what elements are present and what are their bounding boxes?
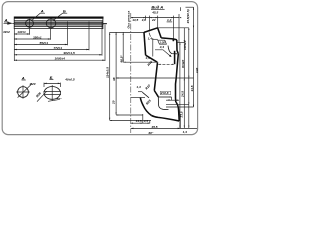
dim row 130 — [14, 33, 29, 35]
top ref tick y7 — [186, 6, 194, 8]
svg-text:350±1: 350±1 — [33, 35, 42, 39]
beam inner line 1b — [14, 21, 103, 23]
head outer face — [177, 40, 179, 54]
svg-text:3,5: 3,5 — [144, 119, 149, 123]
foot left diagonal — [142, 92, 149, 98]
detail A circle — [18, 87, 29, 98]
svg-text:24,5: 24,5 — [181, 91, 185, 98]
view arrow A underline — [4, 21, 9, 23]
svg-text:1000±4: 1000±4 — [55, 57, 66, 61]
foot bottom edge — [152, 116, 180, 122]
svg-text:1,4: 1,4 — [136, 85, 141, 89]
ext x149.5 to top edge — [149, 20, 151, 32]
vert dim x193.5 — [193, 7, 195, 107]
bottom row y128.4 — [131, 127, 197, 129]
dim row 772 — [14, 49, 89, 51]
top dim ticks — [146, 16, 174, 39]
detail B underline — [49, 79, 53, 81]
svg-text:15,5(30,5): 15,5(30,5) — [186, 9, 190, 23]
box pointer arrow — [169, 55, 172, 58]
detail B leader diag — [37, 91, 47, 101]
horiz ext y78 — [116, 77, 193, 79]
svg-text:772±1: 772±1 — [54, 46, 63, 50]
svg-text:14,5: 14,5 — [132, 18, 138, 22]
svg-text:Ось рельса: Ось рельса — [126, 11, 130, 29]
rail axis dash-dot — [130, 13, 132, 133]
horiz ext y42.5 — [177, 42, 184, 44]
ext from peak down — [157, 16, 159, 28]
extension hole2 — [50, 29, 52, 40]
extension line left end — [13, 29, 15, 61]
svg-text:1:20: 1:20 — [159, 41, 165, 45]
detail A crosshair — [16, 85, 30, 99]
svg-text:А: А — [40, 9, 44, 14]
outer flare — [176, 102, 179, 110]
svg-text:38: 38 — [112, 77, 116, 81]
svg-text:4,4: 4,4 — [159, 45, 165, 49]
svg-text:10/320: 10/320 — [183, 40, 187, 50]
svg-text:Вид А: Вид А — [151, 4, 163, 9]
dim row 902 — [14, 54, 102, 56]
svg-text:45,5: 45,5 — [151, 125, 158, 129]
dim row 1000 — [14, 59, 105, 61]
horiz ext y62 — [123, 61, 157, 63]
horiz ext y120.5 — [110, 120, 151, 122]
horiz ext y27.5 — [158, 27, 189, 29]
leader 1.4 head — [149, 33, 151, 37]
head shoulder — [161, 38, 177, 40]
svg-text:130: 130 — [195, 68, 199, 73]
vert dim x179.9 — [179, 43, 181, 129]
svg-text:114±0,5: 114±0,5 — [105, 67, 109, 78]
hole A vertical centerline — [29, 19, 31, 29]
bottom ext x180.3 — [179, 114, 181, 129]
extension x89 — [88, 22, 90, 51]
svg-text:Ø20: Ø20 — [30, 82, 36, 86]
tick top right — [180, 7, 182, 11]
horiz ext y104.7 — [166, 104, 189, 106]
svg-text:22: 22 — [151, 18, 156, 22]
vert dim x184.3 — [183, 28, 185, 128]
dim row 552 — [14, 44, 67, 46]
detail B crosslines — [44, 85, 62, 101]
shoulder arrow blob — [172, 39, 174, 42]
bottom row y123.2 — [131, 122, 150, 124]
beam centerline — [13, 22, 108, 24]
extension x105 tab — [104, 25, 106, 61]
bottom ext x149.8 — [149, 120, 151, 123]
svg-text:14,5: 14,5 — [136, 119, 142, 123]
vert dim x188.8 — [188, 28, 190, 128]
beam top thick edge — [14, 17, 104, 19]
outer face mid — [176, 54, 179, 102]
svg-text:1,4: 1,4 — [145, 56, 150, 60]
beam inner line 2 — [14, 24, 103, 26]
web 1.4 dim line — [138, 91, 142, 93]
horiz ext y98 — [131, 97, 145, 99]
beam inner line 1 — [14, 20, 103, 22]
svg-text:552±1: 552±1 — [40, 41, 49, 45]
detail A underline — [22, 79, 26, 81]
detail A leader diag — [18, 84, 32, 97]
svg-text:60°: 60° — [149, 131, 154, 135]
dim 2±0.8 box — [160, 91, 171, 94]
notch inner edge — [174, 51, 176, 64]
foot right edge — [178, 110, 181, 121]
hole B leader — [54, 13, 68, 20]
page border frame — [2, 2, 197, 135]
web S-jog — [154, 91, 158, 97]
shelf line — [158, 96, 171, 98]
svg-text:50°: 50° — [57, 97, 62, 101]
beam inner line 2b — [14, 25, 103, 27]
bottom ext x142.8 — [142, 114, 144, 123]
detail B ellipse — [44, 87, 60, 100]
svg-text:40±0,5: 40±0,5 — [64, 77, 75, 81]
svg-text:2±0,8: 2±0,8 — [160, 91, 169, 95]
hole B vertical centerline — [50, 19, 52, 29]
dim line y64.3 — [158, 63, 174, 65]
beam body outline — [14, 17, 103, 29]
svg-text:31,5: 31,5 — [190, 85, 194, 91]
slope box leader — [152, 38, 158, 40]
svg-text:П/320: П/320 — [181, 59, 185, 68]
svg-text:45,5: 45,5 — [151, 11, 158, 15]
1.4 underline bar — [167, 21, 173, 23]
extension x67.5 — [67, 22, 69, 46]
web lower drop — [158, 97, 168, 110]
head left edge — [144, 32, 146, 55]
detail B tangent line — [48, 100, 58, 102]
svg-text:20: 20 — [112, 100, 116, 105]
svg-text:А: А — [21, 75, 25, 80]
hole B ellipse — [46, 19, 56, 28]
web left edge — [154, 62, 157, 90]
hole A leader — [32, 13, 46, 20]
vertical x152.8 — [152, 38, 154, 57]
svg-text:86,5°: 86,5° — [120, 54, 124, 62]
fishing slope — [146, 55, 158, 62]
svg-text:1,4: 1,4 — [183, 130, 188, 134]
extension x102 — [101, 22, 103, 56]
title underline — [151, 8, 165, 10]
head steep right drop — [158, 28, 162, 38]
extension hole1 — [29, 29, 31, 35]
profile head top edge — [144, 28, 158, 33]
slope 1:20 box — [158, 40, 167, 44]
top dim row — [131, 17, 179, 19]
top edge extension header — [110, 31, 145, 33]
notch arc feature — [168, 46, 177, 54]
vert dim x116.1 — [115, 32, 117, 114]
detail B dim line 40 — [44, 83, 60, 87]
dimension arrowheads — [14, 8, 194, 130]
view arrow A arrow — [4, 22, 12, 24]
horiz ext y107 — [166, 106, 194, 108]
svg-text:Б: Б — [63, 9, 66, 14]
step arrow — [167, 99, 170, 101]
step line y100 — [166, 99, 179, 101]
svg-text:49±2: 49±2 — [2, 30, 10, 34]
dim row 350 — [14, 38, 50, 40]
svg-text:130±1: 130±1 — [17, 30, 26, 34]
svg-text:1,4: 1,4 — [148, 37, 153, 41]
step vertical — [171, 97, 173, 100]
beam end tab line — [103, 23, 107, 25]
svg-text:Б: Б — [50, 75, 53, 80]
vert dim x109.7 — [109, 32, 111, 120]
hole A circle — [26, 19, 34, 27]
ext right 179 — [178, 14, 180, 43]
vert dim x123.2 — [122, 32, 124, 62]
svg-text:902±1,5: 902±1,5 — [64, 51, 75, 55]
svg-text:3,6: 3,6 — [142, 18, 147, 22]
box pointer leader — [155, 50, 171, 56]
foot left curve — [140, 97, 151, 115]
horiz ext y115 — [116, 114, 143, 116]
